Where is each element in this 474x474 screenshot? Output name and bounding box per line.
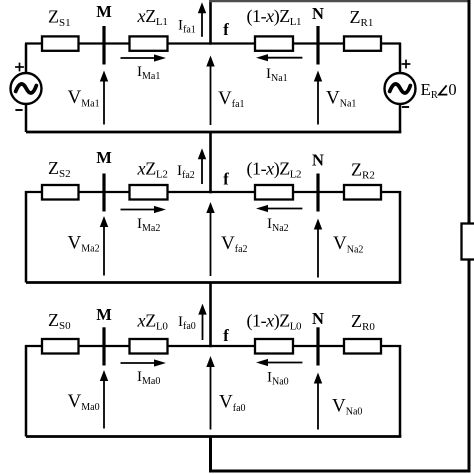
svg-text:f: f: [223, 326, 229, 345]
svg-text:M: M: [96, 305, 112, 324]
svg-text:N: N: [312, 150, 324, 169]
svg-text:f: f: [223, 170, 229, 189]
svg-text:N: N: [312, 4, 324, 23]
svg-text:M: M: [96, 2, 112, 21]
svg-text:f: f: [223, 20, 229, 39]
svg-text:0: 0: [448, 80, 456, 99]
svg-text:M: M: [96, 148, 112, 167]
svg-text:N: N: [312, 309, 324, 328]
